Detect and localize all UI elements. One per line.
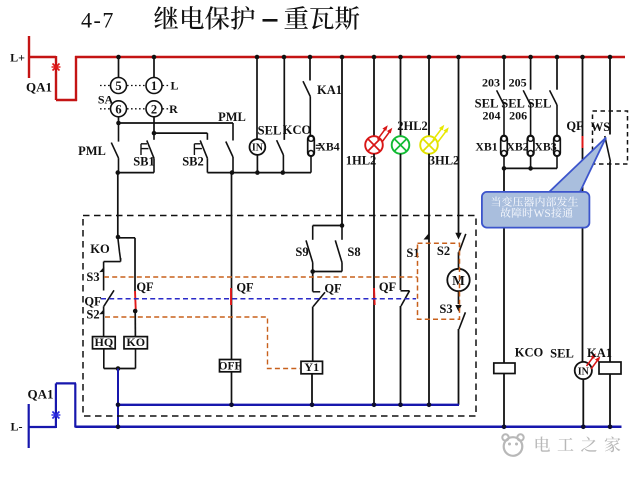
contact PML (left) <box>78 123 118 173</box>
connector XB3 <box>534 136 560 157</box>
svg-text:IN: IN <box>578 366 590 377</box>
lamp IN (bottom, SEL) <box>550 347 600 427</box>
control line S2-orange <box>105 317 300 369</box>
svg-text:206: 206 <box>509 109 527 123</box>
svg-text:QA1: QA1 <box>26 80 52 95</box>
switch S2 (arrow) <box>86 306 104 336</box>
wire 2HL2 column <box>400 57 402 136</box>
svg-text:SB2: SB2 <box>182 155 204 169</box>
contact QF (2HL2 column) <box>401 154 410 405</box>
svg-text:WS: WS <box>591 120 611 134</box>
contact S8 <box>335 226 360 272</box>
contact QF (HQ column) <box>84 290 114 308</box>
svg-text:2HL2: 2HL2 <box>397 119 428 133</box>
svg-text:KCO: KCO <box>283 123 312 137</box>
svg-text:PML: PML <box>78 144 106 158</box>
watermark logo <box>502 434 523 456</box>
wire SA2 to SB row <box>152 117 208 136</box>
breaker QA1 (top) <box>26 56 77 101</box>
coil KA1 <box>587 346 621 427</box>
lamp 2HL2 <box>392 119 428 154</box>
wire SA6 to PML row <box>116 117 233 125</box>
svg-text:QF: QF <box>136 280 154 294</box>
label R <box>169 102 178 116</box>
svg-text:XB2: XB2 <box>506 140 528 154</box>
switch SA contact 1 <box>146 57 162 94</box>
lamp 3HL2 <box>420 125 459 168</box>
contact QF (1HL2, closed red) <box>374 280 397 305</box>
svg-text:SEL: SEL <box>501 97 525 111</box>
contact WS <box>591 57 611 362</box>
svg-text:QF: QF <box>566 119 584 133</box>
svg-text:SEL: SEL <box>475 97 499 111</box>
svg-text:2: 2 <box>151 102 157 116</box>
contact KO <box>90 239 120 260</box>
wire SB group down <box>231 173 233 360</box>
coil Y1 <box>301 360 323 405</box>
control line QF-blue <box>101 298 416 300</box>
svg-text:KCO: KCO <box>515 345 544 359</box>
svg-text:1: 1 <box>151 79 157 93</box>
svg-text:QF: QF <box>84 295 102 309</box>
svg-text:KA1: KA1 <box>587 346 612 360</box>
svg-text:6: 6 <box>115 102 121 116</box>
contact SEL 3 <box>528 57 557 136</box>
svg-text:5: 5 <box>115 79 121 93</box>
pushbutton SB1 <box>133 133 155 173</box>
title <box>81 6 359 33</box>
wire HQ/KO join <box>104 366 136 371</box>
svg-text:IN: IN <box>252 143 264 154</box>
svg-text:SEL: SEL <box>528 97 552 111</box>
button OFF <box>219 360 242 405</box>
svg-text:4-7: 4-7 <box>81 8 115 33</box>
SA dotted linkage <box>100 86 170 109</box>
svg-text:204: 204 <box>483 109 501 123</box>
svg-text:205: 205 <box>509 76 527 90</box>
breaker QA1 (bottom) <box>28 383 77 448</box>
wire branch to QF <box>118 238 135 291</box>
svg-text:OFF: OFF <box>219 360 242 372</box>
svg-text:WS: WS <box>534 208 551 220</box>
contact PML (right) <box>218 110 246 173</box>
contact KA1 <box>303 57 342 136</box>
svg-text:QF: QF <box>379 280 397 294</box>
svg-text:KA1: KA1 <box>317 83 342 97</box>
svg-text:XB3: XB3 <box>534 140 556 154</box>
wire L+ to QA1 <box>28 56 56 58</box>
connector XB1 <box>475 136 507 157</box>
label SEL <box>258 124 282 138</box>
svg-text:SB1: SB1 <box>133 155 155 169</box>
wire XB join <box>502 156 557 170</box>
node bus junctions <box>116 55 612 60</box>
pushbutton SB2 <box>182 133 207 173</box>
svg-text:PML: PML <box>218 110 246 124</box>
watermark text <box>536 436 621 452</box>
svg-text:L+: L+ <box>10 51 25 65</box>
label L <box>170 79 178 93</box>
lamp IN (SEL) <box>250 57 266 173</box>
contact QF (OFF column, closed red) <box>231 281 254 306</box>
switch SA contact 6 <box>111 101 127 117</box>
wire S9/S8 join <box>310 269 342 274</box>
connector XB4 <box>308 136 340 173</box>
svg-text:QF: QF <box>324 282 342 296</box>
svg-text:Y1: Y1 <box>304 360 319 374</box>
node bus1 junctions <box>116 403 432 408</box>
svg-text:QF: QF <box>236 281 254 295</box>
connector XB2 <box>506 136 534 157</box>
contact QF (WS column, closed red) <box>566 57 584 362</box>
wire lower link bus (left group) <box>116 170 155 175</box>
wire 1HL2 to QF <box>373 154 375 405</box>
label KCO <box>283 123 312 137</box>
control line S3-orange <box>104 276 418 278</box>
svg-text:L-: L- <box>11 420 23 434</box>
wire 1HL2 column <box>373 57 375 136</box>
node bus2 junctions <box>116 425 613 430</box>
box WS (dashed) <box>593 111 628 164</box>
box control circuit (dashed) <box>83 216 476 417</box>
svg-text:SEL: SEL <box>550 347 574 361</box>
svg-text:KO: KO <box>126 335 145 349</box>
svg-text:KO: KO <box>90 242 110 256</box>
svg-text:HQ: HQ <box>95 335 114 349</box>
box S1/S2/S3 orange <box>418 243 460 319</box>
wire lower link bus (right group) <box>207 170 311 175</box>
switch S2 <box>437 57 466 269</box>
callout bubble <box>482 138 606 228</box>
svg-text:S9: S9 <box>295 245 308 259</box>
switch S3 (lower) <box>439 291 465 405</box>
contact QF (Y1 column) <box>313 272 342 362</box>
svg-text:S2: S2 <box>86 308 99 322</box>
coil KO <box>124 309 147 369</box>
svg-text:1HL2: 1HL2 <box>346 154 377 168</box>
switch S1 (wire with arrow) <box>406 154 429 405</box>
svg-text:XB1: XB1 <box>475 140 497 154</box>
switch S3 (bracket) <box>86 258 120 291</box>
svg-text:S3: S3 <box>439 302 452 316</box>
coil KCO <box>494 345 544 427</box>
node L- terminal <box>11 420 23 434</box>
contact KCO <box>277 57 285 173</box>
wire control minus bus (blue) <box>118 404 459 406</box>
switch SA contact 5 <box>111 57 127 94</box>
lamp 1HL2 <box>346 125 393 167</box>
wire PML group down <box>116 173 121 240</box>
coil HQ <box>93 335 116 368</box>
motor M <box>447 269 469 291</box>
svg-text:M: M <box>452 273 465 288</box>
contact SEL 2 <box>501 57 530 136</box>
wire bus to S9/S8 <box>313 57 345 228</box>
svg-text:QA1: QA1 <box>28 387 54 402</box>
contact SEL 1 <box>475 57 504 136</box>
wire to KCO coil <box>503 168 505 363</box>
label SA <box>98 93 114 107</box>
svg-text:L: L <box>170 79 178 93</box>
wire to minus bus (blue) <box>117 369 119 427</box>
wire 3HL2 column <box>428 57 430 136</box>
svg-text:S2: S2 <box>437 244 450 258</box>
svg-text:R: R <box>169 102 178 116</box>
contact S9 <box>295 226 312 272</box>
svg-text:SA: SA <box>98 93 114 107</box>
svg-text:S3: S3 <box>86 270 99 284</box>
svg-text:203: 203 <box>482 76 500 90</box>
wire L+ bus (red) <box>75 56 625 59</box>
switch SA contact 2 <box>146 101 162 117</box>
svg-text:S8: S8 <box>347 245 360 259</box>
contact QF (KO column, closed red) <box>135 280 154 311</box>
wire L- bus (blue) <box>75 426 621 429</box>
svg-text:SEL: SEL <box>258 124 282 138</box>
svg-text:XB4: XB4 <box>317 140 339 154</box>
node L+ terminal <box>10 36 29 78</box>
svg-text:3HL2: 3HL2 <box>429 154 460 168</box>
